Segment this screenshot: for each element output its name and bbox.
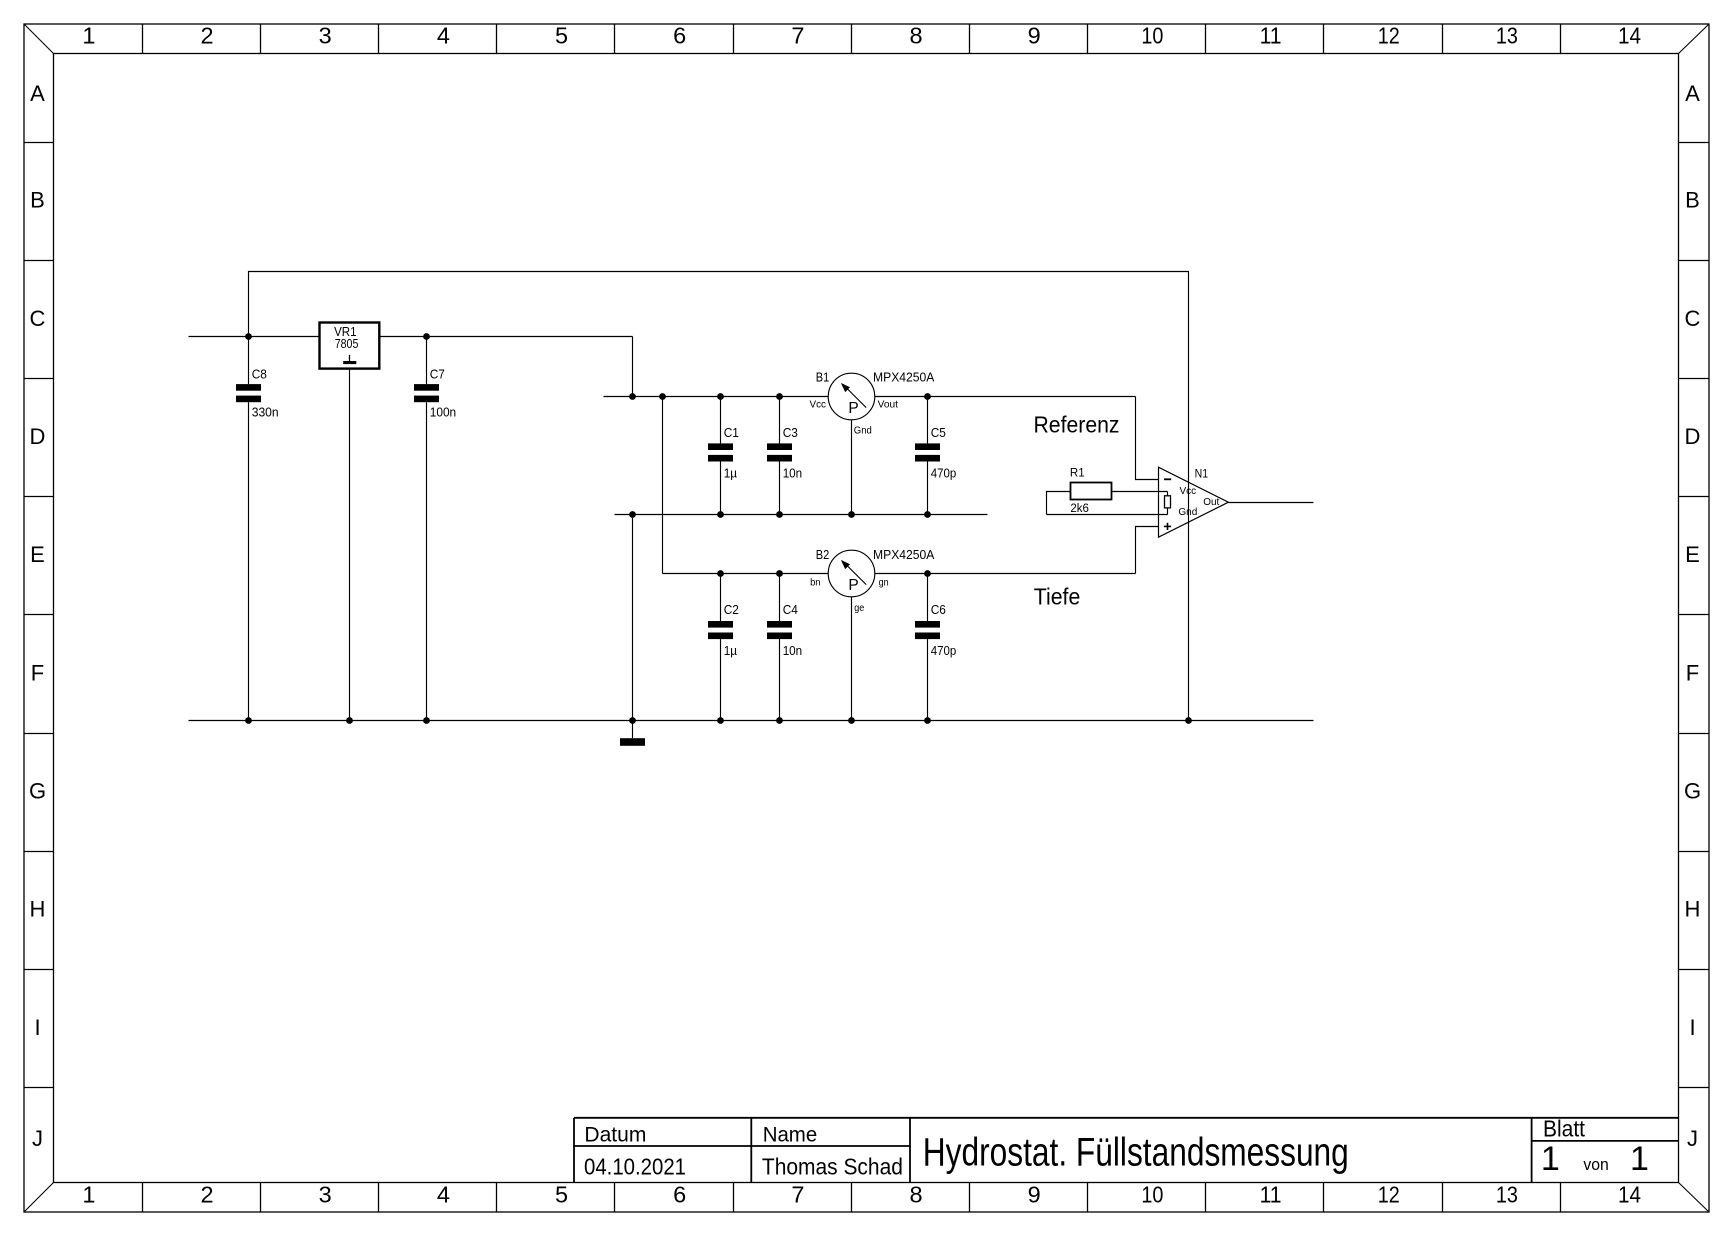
svg-text:14: 14 [1618,22,1641,48]
svg-text:Gnd: Gnd [854,426,872,437]
svg-text:bn: bn [810,578,820,589]
node VR1 output / C7 junction [423,333,430,340]
svg-text:A: A [1685,81,1700,106]
svg-text:4: 4 [437,22,450,48]
wire 5V branch down to B2 rail [662,397,664,574]
resistor R1 2k6 [1070,468,1112,515]
svg-text:I: I [34,1015,40,1040]
svg-text:13: 13 [1496,1182,1518,1208]
svg-text:J: J [32,1126,43,1151]
svg-text:B2: B2 [816,547,830,562]
svg-text:7805: 7805 [335,336,359,351]
svg-text:10n: 10n [783,465,803,480]
svg-text:MPX4250A: MPX4250A [873,547,935,562]
svg-text:3: 3 [319,22,332,48]
wire B2 rail right of B2 (Tiefe signal) [875,573,1136,575]
capacitor C4 10n [767,574,802,721]
svg-text:Vcc: Vcc [810,400,827,411]
svg-text:2: 2 [201,22,214,48]
wire Tiefe signal to op-amp plus input [1136,527,1159,574]
pressure sensor B2 MPX4250A [810,547,935,614]
svg-text:P: P [848,400,858,417]
node input / C8 / 0V-rail junction [245,333,252,340]
node C6 ground [924,717,931,724]
node 0V rail to ground rail [1185,717,1192,724]
svg-text:N1: N1 [1195,469,1209,481]
wire 5V rail left of B1 [604,396,829,398]
wire Referenz signal to op-amp minus input [1136,397,1159,480]
node C5 bottom [924,511,931,518]
node B2 Gnd ground [848,717,855,724]
op-amp N1 [1159,467,1229,537]
svg-text:Vcc: Vcc [1180,486,1197,497]
capacitor C2 1&#181; [708,574,739,721]
svg-text:G: G [29,779,46,804]
svg-text:11: 11 [1260,1182,1282,1208]
wire B2 rail left of B2 [663,573,829,575]
svg-text:10: 10 [1141,22,1163,48]
svg-text:C4: C4 [783,602,798,617]
capacitor C1 1&#181; [708,397,739,515]
svg-text:P: P [848,577,858,594]
svg-text:7: 7 [791,22,804,48]
node 5V rail to B2 branch [659,393,666,400]
node C6 top [924,570,931,577]
svg-text:1: 1 [82,1182,95,1208]
ground symbol [620,721,645,746]
wire VR1 output down to 5V rail [632,337,634,397]
svg-text:7: 7 [791,1182,804,1208]
svg-text:H: H [30,897,46,922]
svg-text:2: 2 [201,1182,214,1208]
svg-text:6: 6 [673,1182,686,1208]
capacitor C6 470p [915,574,956,721]
svg-text:F: F [1686,660,1699,685]
svg-text:Referenz: Referenz [1034,412,1120,438]
svg-text:C8: C8 [252,367,267,382]
node C7 ground [423,717,430,724]
wire 5V rail right of B1 (Referenz signal) [875,396,1136,398]
pressure sensor B1 MPX4250A [810,369,935,436]
svg-text:H: H [1685,897,1701,922]
svg-text:Thomas Schad: Thomas Schad [762,1154,903,1180]
title block frame [574,1117,1679,1119]
svg-text:C6: C6 [931,602,946,617]
node C2 top [717,570,724,577]
wire op-amp output [1228,502,1313,504]
wire VR1 output [379,336,632,338]
node C4 ground [776,717,783,724]
svg-text:B: B [1685,188,1700,213]
svg-text:12: 12 [1378,22,1400,48]
svg-text:D: D [1685,424,1701,449]
svg-text:1: 1 [82,22,95,48]
svg-text:C7: C7 [430,367,445,382]
svg-text:8: 8 [910,1182,923,1208]
wire R1 right lead to op-amp Vcc pin [1112,491,1168,493]
svg-text:A: A [30,81,45,106]
svg-text:von: von [1583,1155,1609,1174]
svg-text:12: 12 [1378,1182,1400,1208]
svg-text:2k6: 2k6 [1070,503,1089,515]
svg-text:C1: C1 [724,425,739,440]
svg-text:1: 1 [1630,1140,1649,1178]
node B1 Gnd stem [848,511,855,518]
svg-text:Gnd: Gnd [1178,507,1197,518]
capacitor C7 100n [414,337,456,721]
node C5 top [924,393,931,400]
svg-text:C: C [1685,306,1701,331]
svg-text:MPX4250A: MPX4250A [873,369,935,384]
svg-text:ge: ge [854,603,864,614]
svg-text:E: E [1685,542,1700,567]
svg-text:14: 14 [1618,1182,1641,1208]
wire 0V return rail from input node to ground rail [249,272,1189,721]
svg-text:B1: B1 [816,369,830,384]
node C1 top [717,393,724,400]
node VR1 ground [346,717,353,724]
svg-text:100n: 100n [430,405,457,420]
node C3 bottom [776,511,783,518]
svg-text:I: I [1689,1015,1695,1040]
node C8 ground [245,717,252,724]
svg-text:1µ: 1µ [724,643,738,658]
svg-text:C2: C2 [724,602,739,617]
svg-text:10n: 10n [783,643,803,658]
node C3 top [776,393,783,400]
svg-text:9: 9 [1028,1182,1041,1208]
wire R1 left lead loop [1047,492,1071,515]
svg-text:Hydrostat. Füllstandsmessung: Hydrostat. Füllstandsmessung [923,1131,1349,1175]
svg-text:11: 11 [1260,22,1282,48]
svg-text:Name: Name [763,1124,818,1147]
node sensor-gnd rail to ground branch [629,511,636,518]
svg-text:D: D [30,424,46,449]
svg-text:04.10.2021: 04.10.2021 [584,1154,686,1180]
svg-text:Datum: Datum [584,1124,646,1147]
svg-text:R1: R1 [1070,468,1085,480]
node C4 top [776,570,783,577]
svg-text:gn: gn [879,578,889,589]
capacitor C3 10n [767,397,802,515]
capacitor C5 470p [915,397,956,515]
svg-text:5: 5 [555,22,568,48]
svg-text:4: 4 [437,1182,450,1208]
svg-text:Tiefe: Tiefe [1034,584,1081,610]
svg-text:13: 13 [1496,22,1518,48]
svg-text:330n: 330n [252,405,279,420]
wire B1 Gnd stem [851,420,853,515]
svg-text:Vout: Vout [878,400,899,411]
svg-text:5: 5 [555,1182,568,1208]
svg-text:F: F [31,660,44,685]
svg-text:Out: Out [1203,497,1219,508]
wire ground rail [189,720,1314,722]
wire sensor ground rail down to ground rail [632,515,634,721]
wire op-amp Gnd pin lead [1047,514,1168,516]
voltage regulator VR1 7805 [320,323,380,369]
svg-text:10: 10 [1141,1182,1163,1208]
svg-text:6: 6 [673,22,686,48]
svg-text:3: 3 [319,1182,332,1208]
node ground symbol junction [629,717,636,724]
svg-text:9: 9 [1028,22,1041,48]
svg-text:C3: C3 [783,425,798,440]
svg-text:Blatt: Blatt [1543,1116,1585,1142]
node 5V rail left [629,393,636,400]
svg-text:1µ: 1µ [724,465,738,480]
svg-text:C: C [30,306,46,331]
svg-text:B: B [30,188,45,213]
node C2 ground [717,717,724,724]
svg-text:E: E [30,542,45,567]
svg-text:C5: C5 [931,425,946,440]
node C1 bottom [717,511,724,518]
svg-text:G: G [1684,779,1701,804]
wire VR1 ground pin to ground rail [349,369,351,721]
wire supply input to VR1 [189,336,320,338]
svg-text:470p: 470p [931,643,957,658]
svg-text:470p: 470p [931,465,957,480]
wire sensor ground rail (row 1) [615,514,988,516]
wire B2 Gnd stem [851,597,853,721]
capacitor C8 330n [236,337,279,721]
svg-text:8: 8 [910,22,923,48]
svg-text:J: J [1687,1126,1698,1151]
svg-text:1: 1 [1541,1140,1560,1178]
